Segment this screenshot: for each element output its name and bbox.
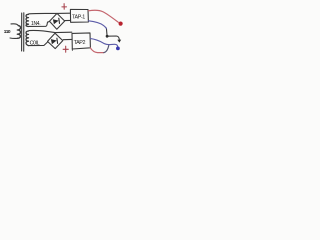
blue terminal dot (V-) xyxy=(116,47,120,51)
wire S1 top lead to TAP-1 box xyxy=(29,12,71,15)
TAP-1 box xyxy=(70,9,88,22)
transformer T1 primary winding xyxy=(17,26,20,39)
plus mark (red) below BR2 xyxy=(63,46,68,52)
blue wire from TAP-2 to terminal xyxy=(91,39,118,47)
svg-text:1N4.: 1N4. xyxy=(31,21,40,27)
diode D1 cathode bar xyxy=(58,18,61,23)
arrowhead on hook (down arrow) xyxy=(117,40,121,43)
wire S2 bottom lead to bridge BR2 xyxy=(29,42,48,46)
bridge rectifier BR1 diamond xyxy=(50,13,65,29)
red output wire from TAP-2 bottom xyxy=(90,48,104,53)
svg-text:TAP2: TAP2 xyxy=(74,40,86,46)
wire BR1 right vertex to TAP-1 box xyxy=(65,19,71,21)
wire BR2 right vertex to TAP-2 box xyxy=(63,38,72,40)
blue wire from TAP-1 to junction xyxy=(89,21,107,29)
red output wire from TAP-1 xyxy=(89,10,119,22)
junction dot xyxy=(106,35,109,38)
diode D1 inside BR1 (triangle) xyxy=(53,19,59,24)
svg-text:110: 110 xyxy=(4,29,11,35)
plus mark (red) above BR1 xyxy=(62,4,67,10)
TAP-2 box corner overshoot xyxy=(71,49,73,51)
wire S2 top lead to TAP-2 box xyxy=(29,30,72,32)
TAP-2 box xyxy=(72,33,90,49)
wire S1 bottom lead to bridge BR1 xyxy=(29,22,49,27)
diode D2 inside BR2 (triangle) xyxy=(51,39,57,44)
bridge rectifier BR2 diamond xyxy=(48,33,63,48)
diode D2 cathode bar xyxy=(56,38,59,43)
dark return curve up from red wire xyxy=(104,45,109,52)
svg-text:TAP-1: TAP-1 xyxy=(72,15,85,21)
transformer core line right xyxy=(23,13,25,51)
transformer core line left xyxy=(21,13,23,51)
svg-text:C0IL: C0IL xyxy=(30,41,40,47)
wire junction vertical (from TAP-1 minus) xyxy=(105,28,108,36)
red terminal dot (V+) xyxy=(119,22,123,26)
transformer secondary winding S2 (bottom) xyxy=(26,31,28,46)
transformer T1 primary bottom lead xyxy=(10,37,18,39)
wire junction horizontal with arrow hook xyxy=(107,36,119,40)
transformer T1 primary top lead xyxy=(11,24,18,26)
transformer secondary winding S1 (top) xyxy=(26,14,28,26)
